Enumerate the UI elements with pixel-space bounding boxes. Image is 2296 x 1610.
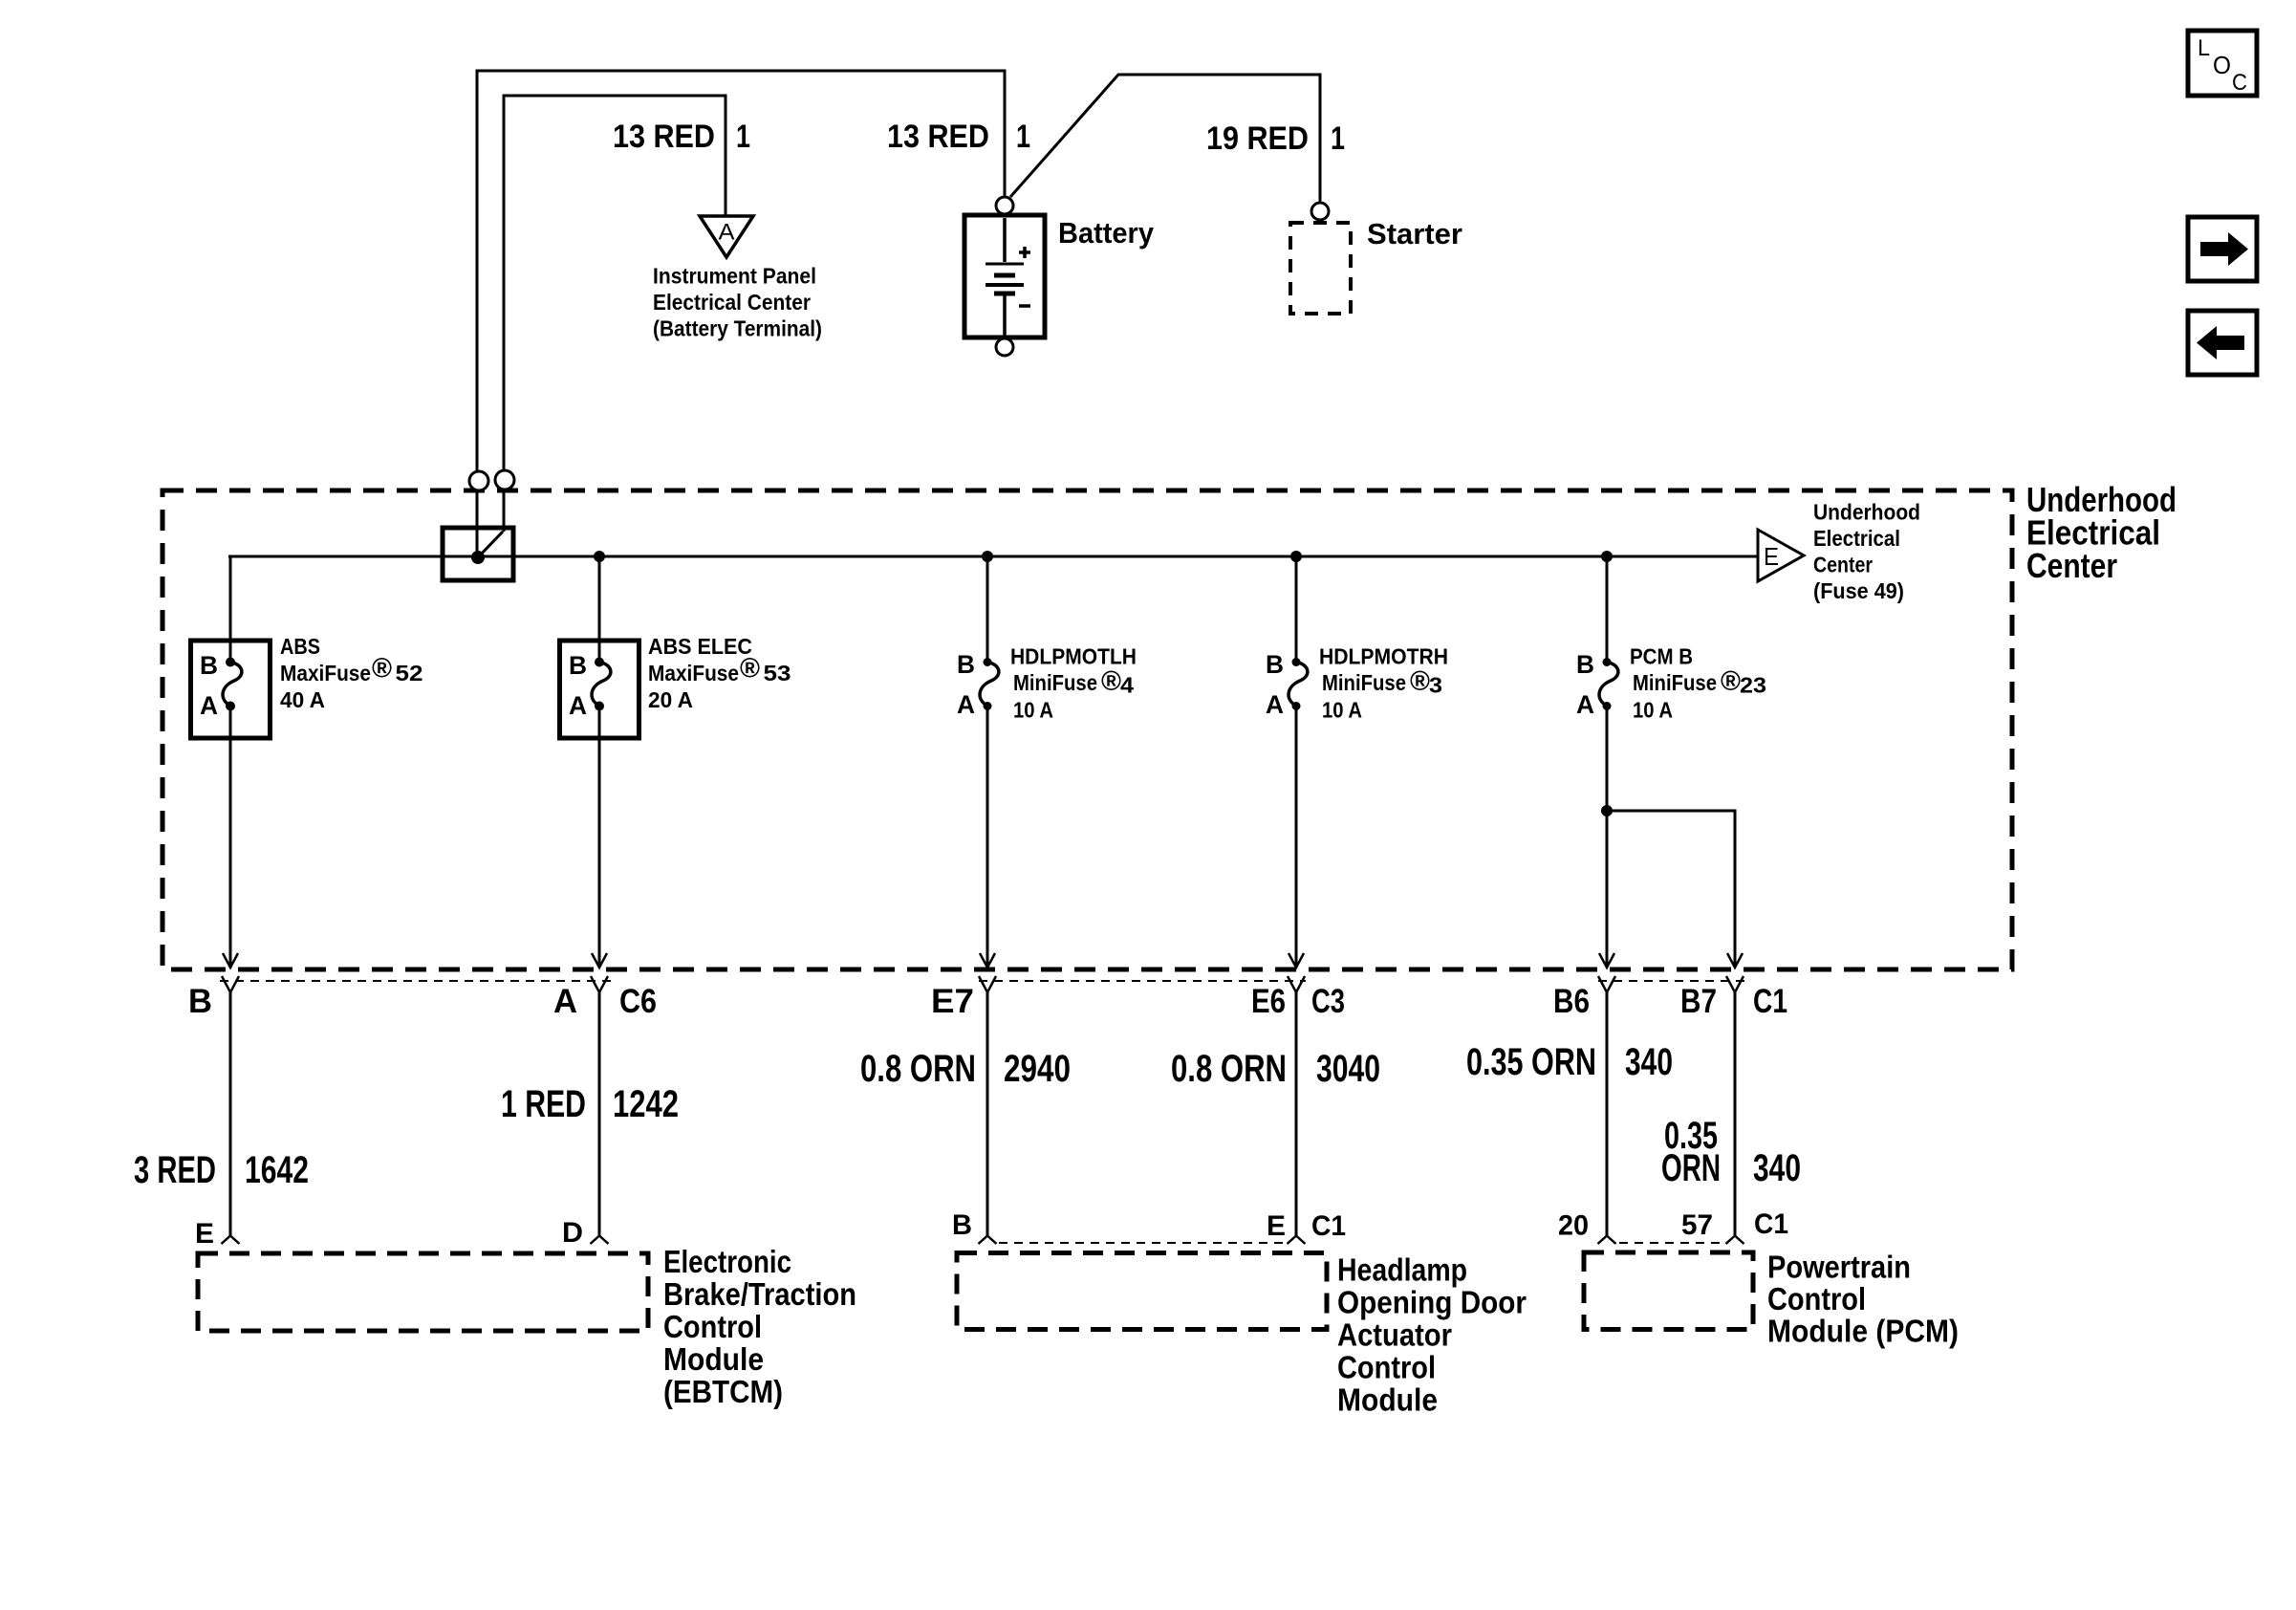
pin label A / C6: [553, 983, 657, 1020]
Powertrain Control Module (PCM) dashed box: [1584, 1252, 1753, 1330]
svg-text:3 RED: 3 RED: [134, 1149, 216, 1191]
junction dot on PCM B feed: [1601, 805, 1613, 816]
label: PCM B MiniFuse 23: [1630, 644, 1766, 723]
label: 0.35 ORN 340 (branch): [1661, 1115, 1801, 1189]
wire: 3 RED 1642 to EBTCM pin E: [222, 992, 240, 1244]
svg-text:3: 3: [1429, 673, 1442, 698]
splice box with junction: [443, 528, 513, 580]
svg-text:2940: 2940: [1004, 1048, 1071, 1090]
svg-text:B6: B6: [1553, 983, 1590, 1020]
fuse box ABS MaxiFuse 52: [191, 641, 271, 738]
wire: fuse output down to connector (x=241): [223, 738, 238, 968]
female connector half at x=1815: [1726, 976, 1744, 992]
pass-through terminal circles at box top: [469, 470, 514, 490]
svg-text:Control: Control: [663, 1309, 762, 1344]
female connector half at x=627: [591, 976, 608, 992]
svg-text:Control: Control: [1337, 1350, 1436, 1385]
female connector half at x=1356: [1288, 976, 1305, 992]
svg-text:C1: C1: [1754, 1208, 1788, 1240]
label: 3 RED 1642: [134, 1149, 309, 1191]
fuse HDLPMOTLH MiniFuse 4: [957, 650, 999, 719]
svg-text:D: D: [562, 1217, 583, 1249]
Electronic Brake/Traction Control Module (EBTCM) dashed box: [198, 1253, 648, 1331]
label: Underhood Electrical Center (Fuse 49): [1813, 500, 1920, 604]
svg-text:340: 340: [1625, 1041, 1673, 1083]
wire: branch to PCM pin B7: [1607, 811, 1743, 968]
bottom pin label 57 / C1 (PCM): [1681, 1208, 1788, 1241]
svg-text:A: A: [553, 983, 577, 1020]
svg-text:Module: Module: [663, 1341, 764, 1377]
svg-text:®: ®: [372, 654, 392, 685]
wire: bus to fuse (x=1356): [1295, 556, 1298, 663]
svg-text:MiniFuse: MiniFuse: [1633, 670, 1717, 695]
svg-text:10 A: 10 A: [1633, 698, 1673, 723]
label: ABS MaxiFuse 52: [280, 634, 423, 712]
label: HDLPMOTRH MiniFuse 3: [1319, 644, 1448, 723]
fuse PCM B MiniFuse 23: [1576, 650, 1618, 719]
terminal A triangle (Instrument Panel Electrical Center): [700, 216, 753, 257]
svg-text:A: A: [1266, 690, 1284, 719]
label: Powertrain Control Module (PCM): [1767, 1250, 1959, 1349]
battery negative terminal circle: [996, 338, 1013, 356]
svg-text:Electronic: Electronic: [663, 1244, 791, 1279]
svg-text:Actuator: Actuator: [1337, 1317, 1452, 1353]
wire: battery feed to instrument panel (top horizontal run): [477, 71, 1005, 557]
svg-text:4: 4: [1120, 673, 1134, 698]
svg-text:0.8 ORN: 0.8 ORN: [860, 1048, 976, 1090]
svg-text:B: B: [1266, 650, 1284, 679]
svg-text:ORN: ORN: [1661, 1147, 1721, 1189]
label: ABS ELEC MaxiFuse 53: [648, 634, 791, 712]
label: 13 RED 1 (battery feed): [887, 119, 1030, 155]
label: 0.8 ORN 3040: [1171, 1048, 1380, 1090]
wire: bus to fuse (x=241): [229, 556, 232, 641]
Underhood Electrical Center dashed box: [162, 490, 2012, 969]
svg-text:13 RED: 13 RED: [887, 119, 989, 155]
svg-text:Battery: Battery: [1058, 216, 1155, 250]
bottom pin label E / C1 (Headlamp module): [1267, 1210, 1346, 1242]
junction on bus (x=1033): [982, 551, 993, 562]
svg-text:B7: B7: [1680, 983, 1717, 1020]
svg-text:ABS: ABS: [280, 634, 320, 659]
svg-text:E6: E6: [1251, 983, 1286, 1020]
pin label B7 / C1: [1680, 983, 1787, 1020]
svg-text:Center: Center: [1813, 553, 1873, 577]
svg-text:1: 1: [1331, 120, 1345, 157]
label: 19 RED 1 (starter feed): [1206, 120, 1345, 157]
svg-text:A: A: [569, 691, 587, 720]
female connector half at x=1033: [979, 976, 996, 992]
svg-text:40 A: 40 A: [280, 687, 325, 712]
female connector half at x=241: [222, 976, 239, 992]
svg-text:Powertrain: Powertrain: [1767, 1250, 1911, 1285]
splice junction dot: [471, 551, 485, 564]
svg-text:Electrical Center: Electrical Center: [653, 290, 811, 315]
svg-text:Opening Door: Opening Door: [1337, 1285, 1527, 1320]
svg-text:(Fuse 49): (Fuse 49): [1813, 578, 1904, 603]
svg-text:C1: C1: [1311, 1210, 1346, 1242]
svg-text:20 A: 20 A: [648, 687, 693, 712]
svg-text:(EBTCM): (EBTCM): [663, 1374, 783, 1409]
connector thin dashed line (right pair): [1598, 980, 1745, 982]
wire: 0.35 ORN 340 to PCM pin 57: [1726, 992, 1744, 1244]
wire: fuse output down to connector (x=1356): [1289, 707, 1304, 968]
svg-text:Starter: Starter: [1367, 217, 1462, 250]
connector C6 in-line thin dashed line (left pair): [220, 980, 612, 982]
junction on bus (x=1356): [1290, 551, 1302, 562]
svg-text:HDLPMOTRH: HDLPMOTRH: [1319, 644, 1448, 669]
svg-text:0.8 ORN: 0.8 ORN: [1171, 1048, 1287, 1090]
svg-text:B: B: [188, 983, 212, 1020]
svg-text:Electrical: Electrical: [1813, 526, 1900, 551]
svg-text:HDLPMOTLH: HDLPMOTLH: [1010, 644, 1137, 669]
wire: fuse output down to connector (x=1681): [1599, 707, 1614, 968]
PCM connector thin dashed line: [1619, 1242, 1724, 1244]
svg-text:PCM B: PCM B: [1630, 644, 1693, 669]
Headlamp Opening Door Actuator Control Module dashed box: [957, 1253, 1327, 1330]
svg-text:23: 23: [1740, 673, 1766, 698]
svg-text:53: 53: [764, 661, 791, 685]
forward arrow box: [2188, 217, 2257, 281]
starter terminal circle: [1311, 203, 1329, 220]
wire: 0.35 ORN 340 to PCM pin 20: [1598, 992, 1616, 1244]
svg-text:3040: 3040: [1316, 1048, 1380, 1090]
svg-text:C: C: [2232, 70, 2247, 96]
svg-text:Center: Center: [2026, 546, 2117, 585]
label: Headlamp Opening Door Actuator Control Module: [1337, 1252, 1527, 1418]
wire: 0.8 ORN 2940 to Headlamp module pin B: [979, 992, 997, 1244]
battery positive terminal circle: [996, 197, 1013, 214]
svg-text:10 A: 10 A: [1013, 698, 1053, 723]
svg-text:1642: 1642: [245, 1149, 309, 1191]
svg-text:B: B: [957, 650, 975, 679]
svg-text:L: L: [2198, 35, 2210, 61]
label: Electronic Brake/Traction Control Module (EBTCM): [663, 1244, 856, 1409]
wire: fuse output down to connector (x=1033): [980, 707, 995, 968]
svg-text:A: A: [200, 691, 218, 720]
svg-text:E: E: [1764, 542, 1779, 571]
svg-text:®: ®: [740, 654, 760, 685]
svg-text:MaxiFuse: MaxiFuse: [648, 661, 739, 685]
svg-text:B: B: [952, 1209, 972, 1241]
svg-text:C6: C6: [619, 983, 657, 1020]
svg-text:0.35 ORN: 0.35 ORN: [1466, 1041, 1596, 1083]
svg-text:Brake/Traction: Brake/Traction: [663, 1276, 856, 1312]
junction on bus (ABS ELEC): [594, 551, 605, 562]
svg-text:10 A: 10 A: [1322, 698, 1362, 723]
svg-text:1: 1: [1016, 119, 1030, 155]
wire: main bus inside underhood center: [228, 555, 1758, 558]
wire: bus to fuse (x=627): [598, 556, 601, 641]
svg-text:®: ®: [1410, 666, 1430, 697]
wire: second feed dropping to triangle A: [504, 96, 726, 532]
svg-text:19 RED: 19 RED: [1206, 120, 1309, 157]
fuse box ABS ELEC MaxiFuse 53: [560, 641, 639, 738]
svg-text:B: B: [1576, 650, 1594, 679]
LOC reference box (top right): [2188, 31, 2257, 96]
svg-text:20: 20: [1558, 1210, 1589, 1242]
svg-text:E7: E7: [931, 983, 974, 1020]
junction on bus (x=1681): [1601, 551, 1613, 562]
svg-text:MaxiFuse: MaxiFuse: [280, 661, 371, 685]
svg-text:1 RED: 1 RED: [501, 1083, 586, 1125]
svg-text:B: B: [200, 651, 218, 680]
pin label E6 / C3: [1251, 983, 1345, 1020]
label: Underhood Electrical Center (right of box): [2026, 480, 2177, 585]
triangle E to Underhood Electrical Center (Fuse 49): [1758, 530, 1804, 581]
svg-text:A: A: [957, 690, 975, 719]
svg-text:Module: Module: [1337, 1382, 1438, 1418]
svg-text:MiniFuse: MiniFuse: [1322, 670, 1406, 695]
svg-text:1242: 1242: [613, 1083, 679, 1125]
starter S1 (dashed outline): [1290, 223, 1351, 314]
label: 13 RED 1 (instrument panel feed): [613, 119, 750, 155]
svg-text:(Battery Terminal): (Battery Terminal): [653, 316, 822, 341]
wire: bus to fuse (x=1033): [986, 556, 989, 663]
svg-text:52: 52: [396, 661, 423, 685]
female connector half at x=1681: [1598, 976, 1615, 992]
connector thin dashed line (middle pair): [979, 980, 1306, 982]
wire: battery positive to starter: [1010, 75, 1320, 202]
svg-text:1: 1: [736, 119, 750, 155]
back arrow box: [2188, 311, 2257, 375]
wire: 1 RED 1242 to EBTCM pin D: [591, 992, 609, 1244]
svg-text:57: 57: [1681, 1209, 1713, 1241]
svg-text:Module (PCM): Module (PCM): [1767, 1314, 1959, 1349]
wire: bus to fuse (x=1681): [1606, 556, 1609, 663]
wire: 0.8 ORN 3040 to Headlamp module pin E: [1288, 992, 1306, 1244]
wire: fuse output down to connector (x=627): [592, 738, 607, 968]
svg-text:®: ®: [1721, 666, 1741, 697]
svg-text:E: E: [195, 1218, 214, 1250]
label: 1 RED 1242: [501, 1083, 679, 1125]
fuse HDLPMOTRH MiniFuse 3: [1266, 650, 1308, 719]
svg-text:13 RED: 13 RED: [613, 119, 715, 155]
svg-text:C1: C1: [1753, 983, 1787, 1020]
svg-text:A: A: [719, 220, 735, 246]
label: 0.8 ORN 2940: [860, 1048, 1071, 1090]
svg-text:®: ®: [1101, 666, 1121, 697]
svg-text:O: O: [2213, 51, 2231, 79]
svg-text:Headlamp: Headlamp: [1337, 1252, 1467, 1288]
svg-text:ABS ELEC: ABS ELEC: [648, 634, 752, 659]
svg-text:340: 340: [1753, 1147, 1801, 1189]
label: HDLPMOTLH MiniFuse 4: [1010, 644, 1137, 723]
svg-text:Underhood: Underhood: [1813, 500, 1920, 525]
svg-text:Control: Control: [1767, 1281, 1866, 1316]
svg-text:B: B: [569, 651, 587, 680]
svg-text:Instrument Panel: Instrument Panel: [653, 264, 816, 289]
label: Instrument Panel Electrical Center (Battery Terminal): [653, 264, 822, 341]
svg-text:E: E: [1267, 1210, 1286, 1242]
Headlamp module connector thin dashed line: [999, 1242, 1286, 1244]
battery B1: [964, 215, 1045, 337]
label: 0.35 ORN 340: [1466, 1041, 1673, 1083]
svg-text:MiniFuse: MiniFuse: [1013, 670, 1097, 695]
svg-text:A: A: [1576, 690, 1594, 719]
svg-text:C3: C3: [1311, 983, 1345, 1020]
